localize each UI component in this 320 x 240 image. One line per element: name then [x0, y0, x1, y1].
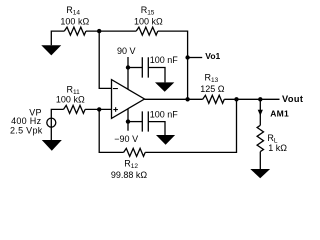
svg-text:1 kΩ: 1 kΩ [268, 143, 287, 153]
svg-text:100 nF: 100 nF [150, 55, 179, 65]
svg-text:R15: R15 [141, 5, 155, 17]
svg-text:R13: R13 [205, 72, 219, 84]
svg-text:100 kΩ: 100 kΩ [56, 95, 85, 105]
svg-text:2.5 Vpk: 2.5 Vpk [10, 125, 43, 135]
svg-text:100 kΩ: 100 kΩ [134, 16, 163, 26]
svg-text:−90 V: −90 V [114, 134, 138, 144]
svg-text:90 V: 90 V [117, 46, 136, 56]
svg-text:R14: R14 [66, 5, 80, 17]
svg-text:125 Ω: 125 Ω [200, 84, 225, 94]
svg-text:100 kΩ: 100 kΩ [60, 16, 89, 26]
svg-text:Vout: Vout [282, 94, 303, 104]
svg-text:AM1: AM1 [270, 109, 289, 119]
svg-text:99.88 kΩ: 99.88 kΩ [111, 170, 148, 180]
svg-text:Vo1: Vo1 [205, 51, 220, 61]
svg-text:100 nF: 100 nF [150, 109, 179, 119]
svg-text:R12: R12 [124, 158, 138, 170]
